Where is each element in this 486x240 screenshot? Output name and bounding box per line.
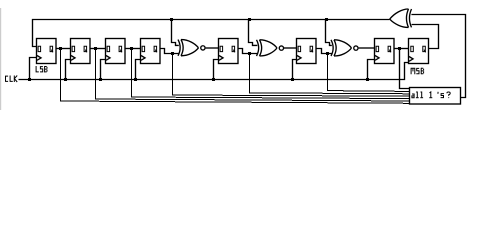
- wire clock hook U7: [368, 60, 375, 80]
- label D U4: [142, 46, 145, 51]
- flip-flop U4 box: [141, 39, 161, 64]
- clock pin triangle U8: [409, 57, 413, 62]
- node clock junction U7: [366, 78, 369, 81]
- node Q3 junction: [130, 47, 133, 50]
- flip-flop U7 box: [375, 39, 395, 64]
- wire Q8 to top XOR lower input: [412, 25, 439, 49]
- wire clock hook U1: [30, 58, 37, 80]
- wire clock hook U3: [101, 60, 106, 80]
- wire G1 output to D5: [206, 47, 219, 49]
- label Q U4: [154, 46, 157, 52]
- node clock junction U3: [99, 78, 102, 81]
- node Q5 junction: [248, 52, 251, 55]
- wire clock hook U5: [214, 60, 219, 80]
- wire Q6 to gate G3 lower input: [316, 49, 332, 54]
- node clock junction U2: [64, 78, 67, 81]
- xnor gate G2: [257, 40, 284, 56]
- node Q6 junction: [326, 52, 329, 55]
- label Q U7: [388, 46, 391, 52]
- wire Q2 tap to detector bus: [96, 49, 411, 102]
- node clock junction U5: [212, 78, 215, 81]
- wire Q7 tap to detector bus: [400, 49, 411, 89]
- label all 1's?: [412, 92, 450, 98]
- wire G2 output to D6: [284, 47, 297, 49]
- label Q U5: [232, 46, 235, 52]
- label D U3: [107, 46, 110, 51]
- wire CLK rail: [19, 63, 409, 80]
- clock pin triangle U7: [375, 56, 379, 61]
- flip-flop U5 box: [219, 39, 239, 64]
- wire Q4 tap to detector bus: [173, 54, 411, 97]
- label LSB: [36, 66, 47, 72]
- node Q7 junction: [398, 47, 401, 50]
- wire clock hook U2: [66, 60, 71, 80]
- node Q1 junction: [59, 47, 62, 50]
- wire Q1 to D2: [56, 48, 71, 50]
- label CLK: [6, 76, 18, 83]
- xnor gate G1: [178, 40, 205, 56]
- label Q U2: [84, 46, 87, 52]
- label D U1: [38, 46, 41, 51]
- wire Q7 to D8: [394, 48, 409, 50]
- wire clock hook U6: [293, 60, 297, 80]
- flip-flop U1 box (LSB): [37, 39, 57, 64]
- label Q U3: [119, 46, 122, 52]
- xor gate G4 (top right, points left): [390, 9, 412, 27]
- label D U5: [220, 46, 223, 51]
- label D U2: [72, 46, 75, 51]
- clock pin triangle U6: [297, 56, 301, 61]
- flip-flop U8 box (MSB): [409, 39, 429, 64]
- label Q U1: [50, 46, 53, 52]
- wire Q5 to gate G2 lower input: [238, 49, 257, 54]
- clock pin triangle U2: [71, 56, 75, 61]
- node tap T3: [325, 18, 328, 21]
- flip-flop U3 box: [106, 39, 126, 64]
- node tap T2: [248, 18, 251, 21]
- flip-flop U6 box: [297, 39, 317, 64]
- node tap T1: [170, 18, 173, 21]
- wire Q3 tap to detector bus: [132, 49, 411, 99]
- wire clock hook U4: [136, 60, 141, 80]
- label D U8: [411, 46, 414, 51]
- node clock junction U1: [28, 78, 31, 81]
- clock pin triangle U4: [141, 56, 145, 61]
- node clock junction U6: [291, 78, 294, 81]
- wire Q4 to gate G1 lower input: [160, 49, 179, 54]
- label D U7: [376, 46, 379, 51]
- node clock junction U4: [134, 78, 137, 81]
- label Q U8: [423, 46, 426, 52]
- wire all-ones output to G4 upper input: [411, 15, 465, 98]
- label Q U6: [310, 46, 313, 52]
- wire feedback hook into G2 upper input: [249, 20, 258, 46]
- flip-flop U2 box: [71, 39, 91, 64]
- wire G3 output to D7: [359, 47, 375, 49]
- wire Q5 tap to detector bus: [250, 54, 411, 94]
- node Q2 junction: [94, 47, 97, 50]
- wire feedback hook into G3 upper input: [326, 20, 332, 46]
- all 1's detector box: [410, 88, 461, 105]
- wire feedback hook into G1 upper input: [172, 20, 179, 46]
- wire feedback top rail: [33, 20, 390, 47]
- wire Q1 tap to detector bus: [61, 49, 411, 104]
- xnor gate G3: [331, 40, 358, 56]
- clock pin triangle U3: [106, 56, 110, 61]
- clock pin triangle U5: [219, 56, 223, 61]
- clock pin triangle U1: [37, 56, 41, 61]
- wire Q3 to D4: [125, 48, 141, 50]
- label D U6: [298, 46, 301, 51]
- wire Q2 to D3: [90, 48, 106, 50]
- node Q4 junction: [171, 52, 174, 55]
- scan edge artifact: [0, 8, 1, 110]
- wire Q6 tap to detector bus: [328, 54, 411, 92]
- label MSB: [411, 68, 424, 75]
